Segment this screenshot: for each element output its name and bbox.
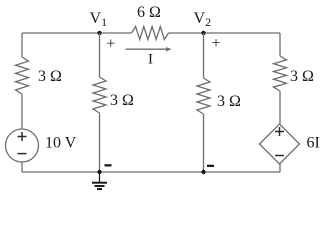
wire bottom — [22, 171, 280, 173]
resistor R2 3ohm middle-left — [93, 77, 106, 113]
dependent source plus sign — [275, 127, 284, 136]
minus sign bottom right branch — [207, 165, 214, 167]
wire top — [22, 32, 132, 34]
svg-text:10 V: 10 V — [45, 135, 77, 152]
wire right upper — [279, 33, 281, 56]
dependent source minus sign — [275, 155, 284, 157]
resistor R3 6ohm horizontal — [132, 27, 169, 40]
svg-text:6I: 6I — [307, 135, 320, 152]
svg-text:3 Ω: 3 Ω — [38, 68, 62, 85]
svg-text:3 Ω: 3 Ω — [290, 68, 314, 85]
wire right middle — [279, 91, 281, 124]
svg-text:6 Ω: 6 Ω — [137, 4, 161, 21]
svg-text:+: + — [212, 35, 221, 52]
dependent source 6I diamond — [260, 124, 300, 164]
svg-text:V1: V1 — [90, 10, 108, 29]
node V1 dot — [97, 31, 101, 35]
voltage source plus sign — [18, 132, 27, 141]
wire top right — [169, 32, 281, 34]
svg-text:+: + — [106, 36, 115, 53]
wire left lower — [21, 162, 23, 172]
junction dot bottom V2 — [201, 170, 205, 174]
wire V2 branch lower — [203, 114, 205, 172]
svg-text:3 Ω: 3 Ω — [217, 93, 241, 110]
svg-text:3 Ω: 3 Ω — [110, 92, 134, 109]
minus sign bottom left branch — [105, 164, 112, 166]
wire right lower — [279, 164, 281, 172]
voltage source V 10V circle — [6, 129, 39, 162]
resistor R5 3ohm right — [274, 56, 287, 91]
resistor R4 3ohm middle-right — [197, 78, 210, 114]
wire V2 branch upper — [203, 33, 205, 78]
current arrow I — [126, 47, 172, 51]
node V2 dot — [201, 31, 205, 35]
svg-text:V2: V2 — [194, 10, 212, 29]
wire left middle — [21, 94, 23, 129]
wire V1 branch lower — [99, 113, 101, 172]
junction dot bottom V1 — [97, 170, 101, 174]
wire left upper — [21, 33, 23, 57]
ground — [92, 172, 107, 189]
resistor R1 3ohm left — [16, 57, 29, 94]
svg-text:I: I — [148, 52, 153, 68]
wire V1 branch upper — [99, 33, 101, 77]
voltage source minus sign — [18, 153, 27, 155]
